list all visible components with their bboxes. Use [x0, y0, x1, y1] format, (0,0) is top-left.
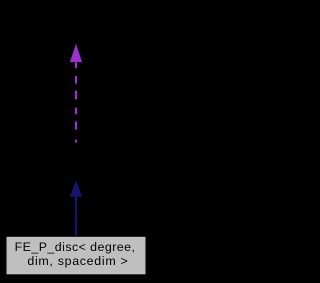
- dashed stem segment 5: [75, 122, 77, 130]
- svg-text:FE_P_disc< degree,: FE_P_disc< degree,: [15, 240, 136, 254]
- arrowhead: [71, 182, 82, 197]
- dashed stem segment 3: [75, 91, 77, 100]
- template relation arrow (dashed, darkorchid) to cropped-off node above: [71, 45, 82, 142]
- inheritance arrow (solid, midnightblue) from FE_P_disc to cropped-off base class: [71, 182, 82, 237]
- solid stem: [75, 196, 77, 237]
- svg-text:dim, spacedim >: dim, spacedim >: [27, 254, 128, 268]
- dashed stem segment 1: [75, 62, 77, 68]
- dashed stem segment 2: [75, 76, 77, 84]
- node FE_P_disc box: [6, 236, 146, 274]
- arrowhead: [71, 45, 82, 61]
- dashed stem segment 6 (cut at crop): [75, 140, 77, 143]
- dashed stem segment 4: [75, 108, 77, 115]
